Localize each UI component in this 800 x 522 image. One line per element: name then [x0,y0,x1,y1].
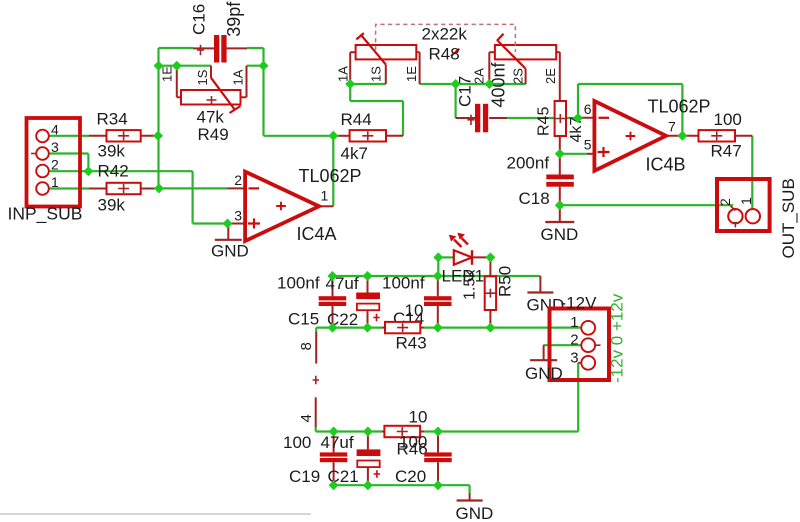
svg-text:100nf: 100nf [382,274,425,293]
svg-text:4: 4 [298,414,315,422]
wire X1 pin2 to GND [543,344,581,346]
svg-text:39k: 39k [98,142,126,161]
wire right vertical of C16/R49 loop [262,48,264,136]
svg-text:4k7: 4k7 [341,144,368,163]
op-amp IC4B [578,101,682,171]
connector INP_SUB [27,118,81,207]
svg-text:2: 2 [234,172,242,188]
svg-text:3: 3 [234,208,242,224]
resistor R50 [485,257,496,327]
potentiometer R48 section 2 [489,34,560,101]
svg-text:-12V: -12V [561,294,598,313]
svg-text:8: 8 [298,342,315,350]
svg-text:2: 2 [51,157,59,173]
svg-text:1.5k: 1.5k [462,269,479,300]
svg-text:100: 100 [283,433,311,452]
svg-text:GND: GND [525,364,563,383]
svg-text:47k: 47k [197,108,225,127]
svg-text:3: 3 [570,349,578,366]
svg-text:R44: R44 [341,110,372,129]
resistor R44 [339,130,404,141]
capacitor C18 [546,154,574,205]
connector OUT_SUB [717,179,770,231]
svg-text:2: 2 [717,198,733,206]
svg-text:R42: R42 [98,162,129,181]
capacitor C17 [456,104,507,133]
svg-text:C16: C16 [190,4,209,35]
svg-text:C18: C18 [519,189,550,208]
resistor R47 [682,130,752,141]
resistor R43 [382,322,424,333]
wire node to R44 left [264,135,339,137]
wire IC4B feedback top [578,83,682,85]
svg-text:1E: 1E [404,66,419,82]
wire C17 to IC4B pin6 (crosses R45) [507,117,578,119]
junction nodes [154,61,164,71]
svg-text:R46: R46 [397,440,428,459]
wire R47 to OUT_SUB pin1 [751,136,753,208]
svg-text:C19: C19 [289,467,320,486]
svg-text:R34: R34 [97,110,128,129]
svg-text:4: 4 [51,122,59,138]
svg-text:C20: C20 [395,467,426,486]
wire C17 drop vertical [455,84,457,118]
svg-text:IC4A: IC4A [297,224,337,244]
svg-text:1E: 1E [160,66,175,82]
capacitor C20 [424,432,452,486]
wire feedback net left vertical (node N1) [157,48,159,188]
svg-text:2E: 2E [543,68,558,84]
svg-text:7: 7 [668,119,676,135]
wire R48 2A to 2S [489,83,525,85]
wire R49 1A to right vertical [247,65,264,67]
svg-text:C15: C15 [288,310,319,329]
connector X1 -12V [550,309,610,381]
svg-text:1A: 1A [336,66,351,82]
ground at X1 pin2 [530,345,557,360]
wire GND rail upper (decoupling top) [333,275,541,277]
resistor R45 [555,101,566,154]
svg-text:3: 3 [51,139,59,155]
svg-text:100nf: 100nf [277,274,320,293]
window frame line bottom [0,513,311,515]
svg-text:OUT_SUB: OUT_SUB [779,178,798,258]
svg-text:GND: GND [527,296,565,315]
svg-text:2S: 2S [511,68,526,84]
svg-text:39pf: 39pf [224,1,244,37]
wire IC4A output vertical [332,136,334,207]
wire R42 out to IC4A pin2 [159,187,228,189]
svg-text:1A: 1A [231,69,246,85]
svg-text:TL062P: TL062P [299,166,362,186]
wire +rail y328 left segment [316,327,382,329]
capacitor C21 electrolytic [357,432,381,486]
wire bottom gnd rail [334,484,470,486]
resistor R34 [89,130,158,141]
wiper artifact near R48 label [451,49,459,56]
svg-text:IC4B: IC4B [646,155,686,175]
capacitor C19 [320,432,348,486]
resistor R46 [382,426,424,437]
wire C18 node to OUT_SUB pin2 [560,204,733,206]
wire C17 node to R48 2A [456,83,490,85]
svg-text:R50: R50 [496,266,515,297]
wire +rail y328 right segment to X1 pin1 [424,327,581,329]
wire R49 1E/1S rail [159,65,212,67]
op-amp power pins 8/4 [313,332,319,427]
capacitor C22 electrolytic [356,276,380,328]
capacitor C16 [193,35,247,63]
svg-text:200nf: 200nf [507,154,550,173]
capacitor C14 [424,276,452,328]
svg-text:GND: GND [456,504,494,522]
ground below C18 [545,205,574,222]
svg-text:1: 1 [321,188,329,204]
LED LED1 [449,233,491,265]
svg-text:R49: R49 [198,125,229,144]
svg-text:1: 1 [570,314,578,331]
wire -rail y431 right segment to X1 pin3 [424,430,578,432]
svg-text:1S: 1S [369,66,384,82]
wire IC4B feedback vertical at pin6 [577,84,579,118]
svg-text:GND: GND [211,242,249,261]
potentiometer R48 section 1 [350,33,419,84]
wire INP_SUB pin3 stub [49,152,88,154]
ground at IC4A pin3 [215,224,242,240]
op-amp IC4A [228,172,334,241]
svg-text:R45: R45 [536,107,553,136]
svg-text:39k: 39k [98,196,126,215]
svg-text:100: 100 [714,110,742,129]
svg-text:GND: GND [541,225,579,244]
svg-text:1S: 1S [195,69,210,85]
wire R44 right up-jog [402,101,404,136]
capacitor C15 [332,276,334,328]
svg-text:TL062P: TL062P [648,97,711,117]
svg-text:-12v 0 +12v: -12v 0 +12v [608,293,627,383]
svg-text:C17: C17 [456,76,475,107]
ground upper right of rail [527,276,553,293]
svg-text:R47: R47 [711,142,742,161]
wire down to IC4A pin3 [192,171,194,223]
wire R48 1A-1S rail [350,83,386,85]
svg-text:2x22k: 2x22k [422,25,468,44]
wire IC4B feedback down to output [681,84,683,136]
wire INP_SUB pin4 to R34 [49,135,89,137]
ground bottom right [457,493,483,501]
svg-text:1: 1 [738,197,754,205]
svg-text:6: 6 [584,101,592,117]
wire C16 top branch right [247,47,264,49]
potentiometer R49 [177,66,247,113]
wire INP_SUB pin2 run [49,170,193,172]
svg-text:2: 2 [570,332,578,349]
svg-text:5: 5 [584,136,592,152]
svg-text:INP_SUB: INP_SUB [8,204,83,225]
svg-text:10: 10 [405,301,424,320]
svg-text:47uf: 47uf [321,433,354,452]
svg-text:1: 1 [51,174,59,190]
svg-text:10: 10 [409,408,428,427]
dashed gang link of R48 [376,24,516,52]
resistor R42 [89,183,159,194]
svg-text:R43: R43 [396,334,427,353]
svg-text:R48: R48 [429,45,460,64]
wire R48 1E to C17 node [420,83,456,85]
wire -rail y431 left segment [316,430,382,432]
wire LED branch corner [437,257,439,276]
wire IC4B pin5 from R45/C18 node [560,153,587,155]
wire C16 top branch left [159,47,194,49]
wire INP_SUB pin1 to R42 [49,187,89,189]
